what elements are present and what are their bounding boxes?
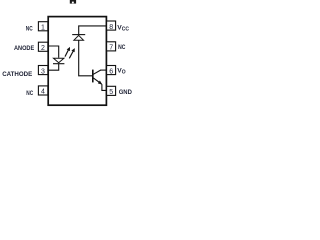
svg-text:2: 2 [41,45,45,52]
pin 6 box [107,66,116,75]
transistor Q1 [93,70,103,85]
pin 4 box [38,86,47,95]
background [0,0,145,119]
IC package body U1 [48,17,106,106]
pin 3 box [38,66,47,75]
wire photodiode anode to transistor base [79,41,93,76]
svg-text:NC: NC [26,26,33,33]
svg-text:ANODE: ANODE [14,45,35,52]
pin 1 box [38,22,47,31]
svg-text:8: 8 [109,24,113,31]
svg-text:CATHODE: CATHODE [2,71,32,78]
svg-text:3: 3 [41,68,45,75]
svg-text:NC: NC [26,90,33,97]
wire collector to pin6 [100,69,107,71]
LED D1 (emitter diode) [53,58,64,63]
svg-text:7: 7 [109,45,113,52]
svg-text:6: 6 [109,68,113,75]
wire emitter to pin5 [102,84,107,90]
wire pin2 to LED anode [48,46,59,58]
pin 2 box [38,42,47,51]
pin 8 box [107,21,116,30]
wire LED cathode to pin3 [48,64,59,70]
svg-text:GND: GND [119,89,132,96]
light emission arrow 2 [69,48,75,58]
wire photodiode cathode to pin8 [79,26,107,34]
cropped title fragment [70,0,76,4]
svg-text:5: 5 [109,89,113,96]
svg-text:4: 4 [41,89,45,96]
pin 5 box [107,86,116,95]
light emission arrow 1 [65,47,70,57]
svg-text:1: 1 [41,25,45,32]
svg-text:NC: NC [118,44,125,51]
pin 7 box [107,42,116,51]
photodiode D2 [72,35,85,41]
